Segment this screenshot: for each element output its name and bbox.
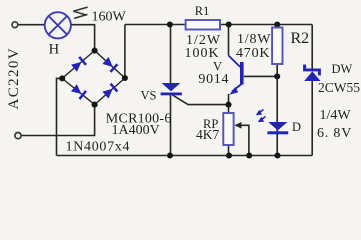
svg-text:1/4W: 1/4W: [320, 108, 352, 123]
thyristor VS: [161, 83, 182, 95]
wire lamp to bridge top: [71, 25, 94, 51]
svg-text:160W: 160W: [92, 10, 127, 25]
diode D2 top-right: [102, 57, 118, 73]
potentiometer RP: [223, 113, 233, 145]
wire LED branch: [276, 76, 278, 155]
svg-text:H: H: [49, 41, 60, 57]
junction collector-R2-LED node: [274, 73, 280, 79]
wire riser bridge right vertex to top rail: [124, 25, 126, 79]
lamp H: [45, 12, 71, 38]
wire bridge left vertex to left riser: [57, 78, 63, 155]
svg-text:D: D: [292, 120, 301, 134]
junction bottom rail / RP bottom: [226, 152, 232, 158]
wire RP bottom lead: [228, 145, 230, 156]
svg-text:DW: DW: [332, 62, 353, 76]
svg-text:4K7: 4K7: [196, 127, 219, 142]
junction top rail / R2 lead: [274, 21, 280, 27]
terminal bottom: [15, 133, 21, 139]
terminal top: [12, 22, 18, 28]
transistor V 9014: [229, 56, 244, 95]
wire emitter to gate node: [228, 94, 230, 105]
bridge rectifier diamond: [62, 51, 125, 105]
svg-text:1A400V: 1A400V: [112, 123, 160, 138]
wire base riser: [228, 25, 230, 56]
svg-text:R1: R1: [195, 4, 210, 18]
diode D3 bottom-left: [71, 84, 87, 100]
wire top rail: [125, 24, 312, 26]
junction gate-emitter-RP node: [225, 102, 231, 108]
wire right side down to zener: [311, 25, 313, 69]
diode D4 bottom-right: [102, 83, 118, 99]
LED emission arrows: [258, 110, 264, 114]
wire top-left AC to lamp: [18, 24, 44, 26]
junction bottom rail / RP wiper: [246, 152, 252, 158]
svg-text:1N4007x4: 1N4007x4: [66, 139, 131, 154]
wire VS cathode to bottom rail: [170, 95, 172, 156]
svg-text:R2: R2: [291, 30, 310, 47]
wire zener to bottom rail: [311, 81, 313, 156]
resistor R2: [272, 28, 282, 65]
svg-text:470K: 470K: [236, 46, 270, 61]
svg-text:VS: VS: [141, 89, 157, 103]
junction bridge right vertex: [122, 75, 128, 81]
wire VS anode riser: [170, 25, 172, 84]
junction top rail / VS anode: [167, 21, 173, 27]
junction bridge top vertex: [92, 48, 98, 54]
junction top rail / base riser: [226, 21, 232, 27]
svg-text:AC220V: AC220V: [6, 47, 22, 110]
wire VS gate: [173, 95, 229, 105]
junction bridge left vertex: [59, 75, 65, 81]
svg-text:2CW55: 2CW55: [318, 80, 360, 95]
potentiometer RP wiper arrow: [234, 122, 241, 129]
diode D1 top-left: [71, 56, 87, 72]
LED D: [256, 110, 288, 135]
junction bottom rail / VS cathode: [167, 152, 173, 158]
wire bottom rail: [57, 155, 313, 157]
zener DW: [303, 65, 321, 82]
junction bridge bottom vertex: [92, 102, 98, 108]
wire R2 bottom lead: [276, 64, 278, 76]
label 160W limit: [73, 7, 87, 18]
junction bottom rail / LED cathode: [274, 152, 280, 158]
svg-text:9014: 9014: [198, 72, 229, 87]
wire RP wiper to bottom rail: [241, 125, 249, 155]
svg-text:6. 8V: 6. 8V: [317, 126, 352, 141]
wire collector to R2/LED node: [244, 75, 277, 77]
wire RP top lead: [228, 105, 230, 113]
wire AC bottom terminal to bridge bottom: [21, 105, 94, 136]
resistor R1: [186, 20, 220, 30]
